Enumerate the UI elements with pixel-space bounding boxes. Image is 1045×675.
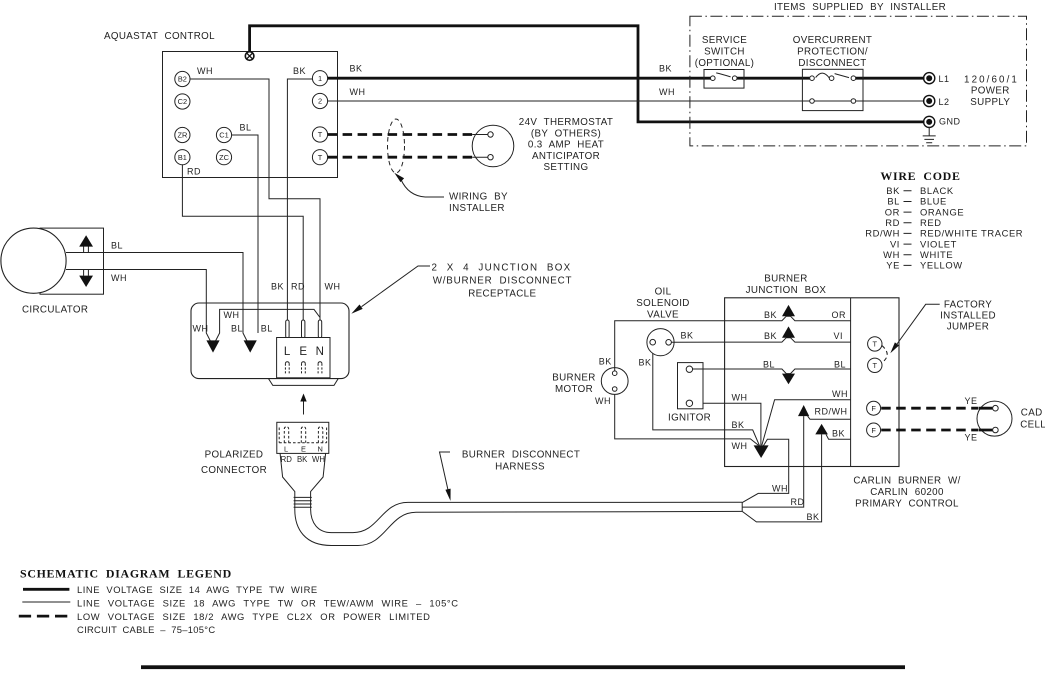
wire BK from terminal 1 to junction box L slot bbox=[287, 79, 312, 321]
svg-text:BK: BK bbox=[639, 358, 652, 368]
terminal T lower (burner) bbox=[868, 358, 882, 372]
svg-text:BL: BL bbox=[834, 359, 846, 369]
ground symbol bbox=[923, 128, 936, 143]
terminal F lower bbox=[867, 423, 881, 437]
svg-text:RD: RD bbox=[281, 455, 293, 464]
legend low-voltage dashed sample bbox=[19, 615, 72, 618]
wire BL from C1 down bbox=[232, 135, 258, 333]
wire BK motor to row 1 bbox=[615, 321, 725, 371]
svg-text:WH: WH bbox=[325, 282, 341, 292]
splice row 2 BK-VI wire bbox=[725, 338, 851, 342]
svg-text:CELL: CELL bbox=[1020, 419, 1045, 430]
cad cell dashed wire lower YE bbox=[881, 429, 978, 432]
svg-text:L2: L2 bbox=[939, 97, 950, 107]
svg-text:OR: OR bbox=[885, 206, 900, 217]
svg-text:BL: BL bbox=[240, 123, 252, 133]
terminal T upper (burner) bbox=[868, 337, 882, 351]
splice row 3 BL-BL wire bbox=[725, 369, 851, 374]
svg-text:OIL: OIL bbox=[655, 287, 672, 298]
svg-text:WH: WH bbox=[732, 393, 748, 403]
legend line-voltage 18awg sample (thin) bbox=[22, 601, 70, 603]
svg-text:ZC: ZC bbox=[219, 153, 230, 162]
svg-text:T: T bbox=[873, 361, 878, 370]
terminal 1 bbox=[312, 71, 327, 86]
circulator terminal block bbox=[40, 228, 104, 294]
svg-text:YE: YE bbox=[965, 432, 978, 442]
svg-text:WHITE: WHITE bbox=[920, 249, 953, 260]
svg-text:WH: WH bbox=[732, 441, 748, 451]
svg-text:POLARIZED: POLARIZED bbox=[205, 450, 264, 461]
splice row 1 BK-OR wire bbox=[725, 316, 851, 321]
svg-text:2 X 4 JUNCTION BOX: 2 X 4 JUNCTION BOX bbox=[432, 262, 572, 273]
thick ground wire from aquastat lug to GND terminal bbox=[250, 26, 925, 122]
svg-text:F: F bbox=[871, 404, 876, 413]
wire RD from B1 to junction box E slot bbox=[182, 165, 303, 321]
terminal ZR bbox=[175, 127, 190, 142]
svg-text:BK: BK bbox=[764, 310, 777, 320]
svg-text:C2: C2 bbox=[178, 97, 187, 106]
svg-text:SCHEMATIC DIAGRAM LEGEND: SCHEMATIC DIAGRAM LEGEND bbox=[20, 567, 232, 581]
plug mate arrow up bbox=[303, 401, 305, 415]
wire code list bbox=[865, 185, 1023, 271]
svg-text:CARLIN BURNER W/: CARLIN BURNER W/ bbox=[853, 476, 960, 487]
svg-text:T: T bbox=[318, 153, 323, 162]
terminal B1 bbox=[175, 150, 190, 165]
svg-text:E: E bbox=[301, 444, 306, 453]
circulator body circle bbox=[1, 228, 66, 293]
svg-text:WH: WH bbox=[350, 87, 366, 97]
svg-text:BK: BK bbox=[807, 512, 820, 522]
leader to harness with arrowhead bbox=[440, 452, 451, 490]
svg-text:BL: BL bbox=[763, 359, 775, 369]
receptacle pin sockets bbox=[285, 362, 322, 375]
overcurrent bottom row contacts bbox=[810, 99, 815, 104]
svg-text:VI: VI bbox=[833, 331, 843, 341]
svg-text:FACTORY: FACTORY bbox=[944, 300, 992, 311]
ground lug symbol (circle-X) on aquastat bbox=[245, 52, 254, 61]
svg-text:VALVE: VALVE bbox=[647, 310, 679, 321]
svg-text:MOTOR: MOTOR bbox=[555, 384, 593, 395]
svg-text:WH: WH bbox=[111, 273, 127, 283]
interior WH wire from receptacle N to splice bbox=[216, 309, 321, 341]
overcurrent breaker arcs bbox=[816, 73, 849, 78]
svg-text:T: T bbox=[318, 130, 323, 139]
cad cell body bbox=[977, 401, 1012, 436]
receptacle slots bbox=[286, 320, 289, 338]
wire WH from B2 to junction box N slot bbox=[190, 79, 320, 321]
cad cell dashed wire upper YE bbox=[881, 407, 978, 410]
receptacle box bbox=[277, 338, 330, 378]
svg-text:INSTALLER: INSTALLER bbox=[449, 203, 505, 214]
terminal C2 bbox=[175, 94, 190, 109]
oil solenoid valve body bbox=[647, 329, 674, 356]
svg-text:L1: L1 bbox=[939, 74, 950, 84]
svg-text:WH: WH bbox=[772, 484, 788, 494]
svg-text:N: N bbox=[316, 346, 325, 358]
leader to jumper with arrowhead bbox=[897, 304, 940, 344]
svg-text:BK: BK bbox=[832, 428, 845, 438]
svg-text:BK: BK bbox=[659, 64, 672, 74]
svg-text:BK: BK bbox=[293, 66, 306, 76]
terminal F upper bbox=[867, 401, 881, 415]
svg-text:120/60/1: 120/60/1 bbox=[964, 74, 1019, 85]
svg-text:DISCONNECT: DISCONNECT bbox=[798, 58, 866, 69]
leader to ellipse with arrowhead bbox=[401, 180, 444, 198]
thermostat wire stubs and contacts bbox=[472, 135, 488, 158]
svg-text:BK: BK bbox=[764, 331, 777, 341]
overcurrent protection box bbox=[802, 69, 863, 110]
svg-text:L: L bbox=[284, 346, 291, 358]
svg-text:C1: C1 bbox=[219, 131, 228, 140]
svg-text:VIOLET: VIOLET bbox=[920, 238, 957, 249]
svg-text:BL: BL bbox=[111, 241, 123, 251]
row 4 WH wire from ignitor down to main splice bbox=[692, 403, 761, 445]
svg-text:GND: GND bbox=[939, 117, 961, 127]
terminal L1 bbox=[924, 73, 950, 84]
svg-text:YELLOW: YELLOW bbox=[920, 260, 963, 271]
thin WH wire terminal 2 to L2 bbox=[328, 100, 925, 102]
svg-text:(OPTIONAL): (OPTIONAL) bbox=[695, 58, 755, 69]
svg-text:CIRCULATOR: CIRCULATOR bbox=[22, 305, 88, 316]
svg-text:WH: WH bbox=[193, 324, 209, 334]
splice row 1 wirenut arrow bbox=[782, 305, 795, 316]
wiring-by-installer dashed ellipse bbox=[388, 119, 405, 173]
terminal B2 bbox=[175, 71, 190, 86]
svg-text:SERVICE: SERVICE bbox=[702, 35, 747, 46]
plug neck with ribs bbox=[294, 495, 312, 509]
svg-text:BK: BK bbox=[886, 185, 900, 196]
terminal C1 bbox=[216, 127, 231, 142]
plug body taper bbox=[280, 453, 326, 495]
terminal ZC bbox=[216, 150, 231, 165]
svg-text:JUNCTION BOX: JUNCTION BOX bbox=[746, 285, 827, 296]
svg-text:WH: WH bbox=[224, 310, 240, 320]
polarized connector box bbox=[277, 422, 329, 453]
2x4 junction box bbox=[191, 303, 349, 379]
terminal T upper bbox=[312, 127, 327, 142]
svg-text:INSTALLED: INSTALLED bbox=[940, 311, 996, 322]
svg-text:LOW VOLTAGE SIZE 18/2 AWG TYPE: LOW VOLTAGE SIZE 18/2 AWG TYPE CL2X OR P… bbox=[77, 611, 430, 622]
svg-text:W/BURNER DISCONNECT: W/BURNER DISCONNECT bbox=[433, 276, 573, 287]
svg-text:WH: WH bbox=[832, 389, 848, 399]
svg-text:ZR: ZR bbox=[177, 131, 187, 140]
svg-text:IGNITOR: IGNITOR bbox=[668, 413, 711, 424]
wire code dashes bbox=[904, 191, 912, 266]
terminal L2 bbox=[924, 95, 950, 106]
svg-text:RD/WH: RD/WH bbox=[865, 228, 900, 239]
BK wire with wirenut arrow bbox=[826, 434, 851, 439]
BL splice arrow bbox=[244, 340, 257, 352]
svg-text:SETTING: SETTING bbox=[544, 162, 589, 173]
thermostat dashed wire upper bbox=[328, 133, 473, 136]
thermostat circle bbox=[472, 125, 514, 167]
svg-text:CAD: CAD bbox=[1021, 407, 1043, 418]
svg-text:VI: VI bbox=[890, 238, 900, 249]
svg-text:T: T bbox=[873, 340, 878, 349]
svg-text:CIRCUIT CABLE – 75–105°C: CIRCUIT CABLE – 75–105°C bbox=[77, 624, 215, 635]
svg-text:BK: BK bbox=[732, 420, 745, 430]
terminal GND bbox=[924, 116, 961, 127]
thermostat dashed wire lower bbox=[328, 156, 473, 159]
svg-text:RD/WH: RD/WH bbox=[815, 407, 848, 417]
splice row 2 wirenut arrow bbox=[782, 326, 795, 337]
burner junction box divider bbox=[850, 298, 852, 467]
ignitor box bbox=[678, 363, 704, 409]
factory installed jumper dashed arc bbox=[882, 346, 887, 363]
svg-text:BK: BK bbox=[297, 455, 308, 464]
harness cable tube bbox=[295, 509, 742, 546]
svg-text:RD: RD bbox=[187, 167, 201, 177]
BK wire from solenoid valve to main splice bbox=[653, 345, 760, 445]
svg-text:SOLENOID: SOLENOID bbox=[636, 298, 689, 309]
WH splice arrow bbox=[206, 340, 219, 352]
main splice big arrow bbox=[754, 445, 769, 458]
wire BL from circulator bbox=[66, 253, 247, 342]
svg-text:BLUE: BLUE bbox=[920, 196, 947, 207]
svg-text:RECEPTACLE: RECEPTACLE bbox=[468, 288, 536, 299]
svg-text:ITEMS SUPPLIED BY INSTALLER: ITEMS SUPPLIED BY INSTALLER bbox=[774, 2, 946, 13]
WH wire from burner motor to main splice bbox=[615, 391, 759, 445]
wire WH from circulator bbox=[66, 270, 210, 342]
svg-text:BURNER: BURNER bbox=[552, 373, 595, 384]
svg-text:PROTECTION/: PROTECTION/ bbox=[797, 47, 868, 58]
svg-text:POWER: POWER bbox=[971, 86, 1010, 97]
items supplied by installer dashed box bbox=[690, 16, 1027, 146]
receptacle trapezoid flange bbox=[268, 378, 338, 385]
svg-text:BLACK: BLACK bbox=[920, 185, 954, 196]
svg-text:RD: RD bbox=[291, 282, 305, 292]
svg-text:WIRE CODE: WIRE CODE bbox=[880, 169, 960, 183]
svg-text:BK: BK bbox=[350, 64, 363, 74]
RD/WH wire with wirenut arrow bbox=[808, 416, 851, 419]
svg-text:HARNESS: HARNESS bbox=[495, 462, 545, 473]
WH stub right of main splice to harness riser bbox=[742, 439, 789, 502]
svg-text:LINE VOLTAGE SIZE 14 AWG TYPE: LINE VOLTAGE SIZE 14 AWG TYPE TW WIRE bbox=[77, 584, 318, 595]
harness cable end cap bbox=[741, 502, 743, 511]
wire BK valve to row 2 bbox=[671, 341, 724, 343]
terminal T lower bbox=[312, 150, 327, 165]
svg-text:0.3 AMP HEAT: 0.3 AMP HEAT bbox=[528, 140, 604, 151]
svg-text:E: E bbox=[299, 346, 307, 358]
svg-text:F: F bbox=[871, 426, 876, 435]
svg-text:YE: YE bbox=[886, 260, 900, 271]
terminal 2 bbox=[312, 93, 327, 108]
circulator down arrow bbox=[84, 270, 89, 276]
svg-text:ORANGE: ORANGE bbox=[920, 206, 964, 217]
polarized connector dashed pins bbox=[279, 427, 326, 443]
junction box leader arrow bbox=[362, 266, 431, 307]
svg-text:CONNECTOR: CONNECTOR bbox=[201, 465, 267, 476]
svg-text:BL: BL bbox=[887, 196, 900, 207]
service switch lever bbox=[716, 73, 730, 77]
overcurrent top row contacts bbox=[810, 76, 815, 81]
svg-text:WIRING BY: WIRING BY bbox=[449, 192, 508, 203]
svg-text:BK: BK bbox=[599, 356, 612, 366]
thick BK line-voltage wire terminal 1 to L1 bbox=[328, 77, 925, 80]
legend line-voltage 14awg sample (thick) bbox=[23, 588, 69, 591]
svg-text:N: N bbox=[318, 444, 323, 453]
svg-text:SUPPLY: SUPPLY bbox=[970, 97, 1010, 108]
svg-text:CARLIN 60200: CARLIN 60200 bbox=[870, 487, 944, 498]
circulator up arrow bbox=[84, 246, 89, 252]
svg-text:YE: YE bbox=[965, 396, 978, 406]
svg-text:WH: WH bbox=[197, 66, 213, 76]
svg-text:SWITCH: SWITCH bbox=[704, 47, 745, 58]
svg-text:(BY OTHERS): (BY OTHERS) bbox=[531, 128, 601, 139]
svg-text:BK: BK bbox=[681, 331, 694, 341]
svg-text:2: 2 bbox=[318, 97, 322, 106]
svg-text:WH: WH bbox=[659, 87, 675, 97]
svg-text:L: L bbox=[284, 444, 288, 453]
bottom title-block bar bbox=[141, 665, 905, 669]
svg-text:BURNER: BURNER bbox=[764, 274, 807, 285]
svg-text:BL: BL bbox=[231, 324, 243, 334]
splice row 3 wirenut arrow (down) bbox=[782, 374, 795, 385]
service switch box bbox=[704, 70, 744, 89]
svg-text:1: 1 bbox=[318, 74, 322, 83]
svg-text:B1: B1 bbox=[178, 153, 187, 162]
svg-text:PRIMARY CONTROL: PRIMARY CONTROL bbox=[855, 499, 959, 510]
svg-text:RD: RD bbox=[885, 217, 900, 228]
WH wire right side diagonal to splice bbox=[762, 400, 851, 446]
svg-text:WH: WH bbox=[883, 249, 900, 260]
burner junction box outline bbox=[725, 298, 899, 467]
svg-text:BL: BL bbox=[261, 324, 273, 334]
wire BL ignitor to row 3 bbox=[692, 368, 724, 370]
svg-text:LINE VOLTAGE SIZE 18 AWG TYPE: LINE VOLTAGE SIZE 18 AWG TYPE TW OR TEW/… bbox=[77, 598, 459, 609]
svg-text:B2: B2 bbox=[178, 75, 187, 84]
svg-text:RED/WHITE TRACER: RED/WHITE TRACER bbox=[920, 228, 1023, 239]
svg-text:OVERCURRENT: OVERCURRENT bbox=[793, 35, 873, 46]
BK riser to harness bbox=[742, 434, 821, 522]
aquastat control box bbox=[163, 52, 338, 178]
svg-text:WH: WH bbox=[595, 396, 611, 406]
svg-text:OR: OR bbox=[832, 310, 847, 320]
svg-text:24V THERMOSTAT: 24V THERMOSTAT bbox=[519, 117, 613, 128]
svg-text:BURNER DISCONNECT: BURNER DISCONNECT bbox=[462, 450, 580, 461]
svg-text:JUMPER: JUMPER bbox=[947, 322, 989, 333]
svg-text:RD: RD bbox=[791, 497, 805, 507]
svg-text:AQUASTAT CONTROL: AQUASTAT CONTROL bbox=[104, 31, 215, 42]
RD/WH riser to harness bbox=[742, 416, 804, 507]
service switch contacts bbox=[711, 76, 716, 81]
svg-text:ANTICIPATOR: ANTICIPATOR bbox=[532, 151, 600, 162]
svg-text:RED: RED bbox=[920, 217, 942, 228]
burner motor body bbox=[601, 368, 628, 395]
svg-text:WH: WH bbox=[312, 455, 325, 464]
svg-text:BK: BK bbox=[271, 282, 284, 292]
